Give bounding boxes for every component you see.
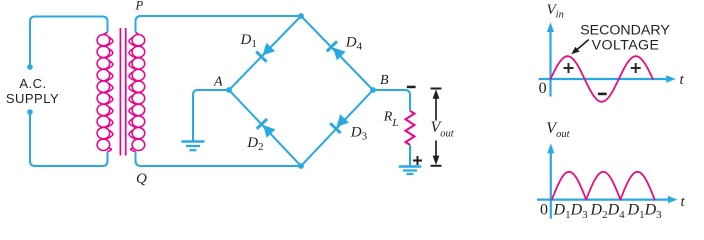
graph2 horizontal axis (t) bbox=[537, 199, 669, 201]
Vout dimension arrow bbox=[431, 88, 442, 90]
graph1 vertical axis (Vin) bbox=[549, 30, 551, 97]
wire: secondary bottom to node Q rail bbox=[136, 152, 302, 166]
polarity minus (top of load) bbox=[407, 86, 416, 89]
svg-text:VOLTAGE: VOLTAGE bbox=[592, 38, 660, 54]
annotation arrow to first peak bbox=[577, 40, 589, 51]
wire: bridge edge A-bottom (diode D2 branch) bbox=[229, 90, 301, 166]
waveform: rectified output humps bbox=[552, 172, 655, 200]
waveform: secondary voltage sine bbox=[551, 56, 653, 102]
junction dot: bridge bottom vertex bbox=[298, 163, 304, 169]
wire: bridge edge T-A (diode D1 branch) bbox=[229, 16, 301, 90]
sign: plus (first half-cycle) bbox=[564, 67, 574, 69]
transformer core bbox=[119, 28, 121, 156]
diode D2 bbox=[257, 119, 276, 138]
graph2 vertical axis (Vout) bbox=[550, 151, 552, 219]
wire: resistor bottom to ground bbox=[409, 145, 411, 166]
wire: A.C. supply loop (bottom-left branch) bbox=[30, 112, 108, 166]
diode D1 bbox=[256, 43, 275, 62]
diode D4 bbox=[327, 41, 346, 60]
graph1 horizontal axis (t) bbox=[539, 78, 668, 80]
junction dot: node B vertex bbox=[370, 87, 376, 93]
junction dot: node A vertex bbox=[226, 87, 232, 93]
transformer primary winding bbox=[97, 35, 110, 46]
resistor RL bbox=[406, 111, 415, 145]
polarity plus (bottom of load) bbox=[413, 160, 422, 162]
sign: minus (second half-cycle) bbox=[598, 93, 607, 96]
svg-text:P: P bbox=[135, 0, 144, 13]
svg-text:B: B bbox=[380, 73, 389, 88]
wire: bridge edge bottom-B (diode D3 branch) bbox=[301, 90, 373, 166]
svg-text:A: A bbox=[213, 75, 223, 90]
wire: bridge edge T-B (diode D4 branch) bbox=[301, 16, 373, 90]
ground symbol (left) bbox=[182, 140, 205, 142]
wire: node B to load resistor bbox=[373, 90, 410, 111]
svg-text:SUPPLY: SUPPLY bbox=[6, 91, 59, 106]
wire: secondary top to node P rail bbox=[136, 16, 302, 32]
sign: plus (third half-cycle) bbox=[631, 67, 641, 69]
transformer secondary winding bbox=[132, 35, 145, 46]
junction dot: bridge top vertex bbox=[298, 13, 304, 19]
svg-text:0: 0 bbox=[539, 80, 547, 97]
svg-text:A.C.: A.C. bbox=[19, 76, 46, 91]
diode D3 bbox=[330, 114, 349, 133]
ground symbol (right, under RL) bbox=[399, 165, 421, 167]
node: A.C. supply lower terminal dot bbox=[27, 109, 33, 115]
svg-text:Q: Q bbox=[136, 171, 147, 187]
svg-text:0: 0 bbox=[540, 202, 548, 219]
wire: A.C. supply loop (top-left branch) bbox=[30, 17, 108, 68]
svg-text:SECONDARY: SECONDARY bbox=[580, 22, 670, 38]
wire: node A to ground bbox=[193, 90, 229, 141]
node: A.C. supply upper terminal dot bbox=[27, 64, 33, 70]
